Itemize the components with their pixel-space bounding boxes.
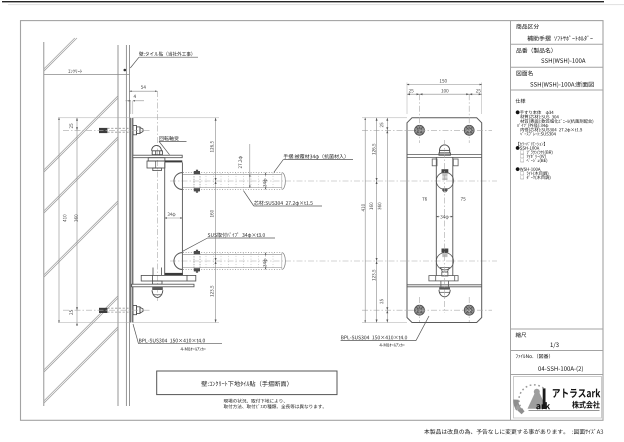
top dome front: [439, 145, 450, 155]
text: ﾊﾟｲﾌﾟ(外径):34φ: [517, 123, 548, 128]
top bearing front: [442, 169, 449, 173]
text: 4-M8ｵｰﾙｱﾝｶｰ: [379, 343, 404, 347]
text: 壁:ｺﾝｸﾘｰﾄ下地ﾀｲﾙ貼（手摺断面）: [201, 381, 288, 387]
text: ﾍﾞｰｽﾌﾟﾚｰﾄ:SUS304: [520, 132, 556, 136]
text: 仕様: [516, 99, 526, 104]
text: 160: [369, 203, 372, 210]
BPL plate side: [130, 118, 132, 323]
text: 25: [476, 89, 481, 92]
title block: [511, 21, 604, 421]
text: 34φ: [440, 215, 448, 219]
dim 34 vertical pipe line: [165, 217, 183, 219]
text: 25: [380, 299, 383, 304]
wall boundary: [43, 42, 45, 406]
label leaders: [159, 140, 187, 142]
text: SUS取付ﾊﾟｲﾌﾟ 34φ×t3.0: [208, 233, 265, 238]
left view right dim col: [133, 117, 219, 119]
anchor hole: [415, 305, 425, 315]
text: 126.5: [210, 141, 213, 152]
text: 34φ: [168, 213, 176, 217]
dim 34 top pipe lines: [265, 173, 267, 177]
text: 商品区分: [516, 24, 539, 29]
right view left dim lines: [362, 117, 407, 119]
text: ﾌｧｲﾙNo.（図番）: [516, 354, 550, 359]
text: 160: [210, 210, 213, 217]
bottom bracket: [165, 273, 183, 275]
text: 手摺:被覆材34φ（抗菌材入）: [284, 154, 346, 159]
dim 54 line: [130, 90, 158, 92]
text: 126.5: [372, 144, 375, 155]
text: ark: [536, 402, 550, 409]
caption box: [157, 371, 337, 395]
text: 取付方法、取付ﾋﾞｽの種類、全長等は異なります。: [224, 404, 324, 408]
text: 410: [361, 204, 364, 211]
text: BPL-SUS304 150×410×t4.0: [139, 339, 205, 343]
text: □ ﾌﾞﾗｳﾝ(ﾂﾔ)(BR): [520, 150, 552, 155]
text: 150: [440, 79, 447, 82]
text: 75: [461, 197, 466, 200]
text: 補助手摺 ｿﾌﾄｻﾎﾟｰﾄﾎﾙﾀﾞｰ: [527, 35, 593, 41]
text: 内径(芯材):SUS304 27.2φ×t1.5: [520, 128, 582, 132]
vertical mounting pipe: [164, 162, 166, 275]
tile marker dot: [124, 69, 127, 72]
text: 25: [409, 89, 414, 92]
text: アトラスark: [553, 389, 601, 398]
text: □ ｱｲﾎﾞﾘｰ(IV): [520, 154, 545, 159]
pipe front: [435, 157, 437, 276]
text: 本製品は改良の為、予告なしに変更する事があります。 :図面ｻｲｽﾞA3: [424, 429, 603, 434]
bottom pipe: [174, 253, 182, 270]
concrete face: [117, 45, 119, 406]
text: 34φ: [263, 259, 267, 267]
text: 410: [63, 215, 66, 222]
wall label leader: [139, 56, 198, 58]
top pipe: [174, 173, 182, 190]
text: SSH(WSH)-100A:断面図: [530, 82, 593, 88]
text: BPL-SUS304 150×410×t4.0: [341, 336, 407, 340]
text: 図面名: [517, 70, 533, 75]
dim 34 bottom pipe lines: [265, 253, 267, 257]
text: 76: [422, 197, 427, 200]
top clamp: [194, 170, 200, 193]
anchor hole: [415, 125, 425, 135]
text: □ ﾗｲﾄ(木目調): [520, 171, 548, 175]
text: 04-SSH-100A-(2): [538, 366, 583, 372]
right view top dim lines: [406, 83, 408, 115]
text: 4-M8ｵｰﾙｱﾝｶｰ: [181, 347, 206, 351]
flat bars front: [407, 154, 482, 156]
text: □ ﾀﾞｰｸ(木目調): [520, 175, 550, 180]
text: 123.5: [210, 286, 213, 297]
centerlines right view: [419, 94, 421, 143]
anchor bottom: [99, 306, 143, 315]
text: 品番（製品名）: [516, 48, 552, 54]
text: SSH(WSH)-100A: [541, 58, 585, 64]
text: 株式会社: [572, 401, 600, 409]
text: ●SSH-100A: [516, 146, 540, 150]
bottom clamp: [194, 250, 200, 273]
text: 材質(表面):軟質塩化ﾋﾞﾆｰﾙ(抗菌剤配合): [520, 119, 593, 124]
text: 360: [74, 215, 77, 222]
bottom flange front: [429, 276, 458, 281]
concrete hatch: [44, 38, 118, 403]
text: 360: [378, 203, 381, 210]
text: 回転軸受: [159, 136, 178, 141]
page top edge: [2, 1, 604, 2]
left dims ext: [58, 117, 131, 119]
text: 4: [134, 95, 136, 98]
text: ｺﾝｸﾘｰﾄ: [68, 69, 82, 73]
text: 材質(芯材):SUS 304: [520, 115, 559, 119]
top bearing dome: [152, 145, 163, 154]
concrete label line: [44, 74, 130, 76]
anchor hole: [464, 305, 474, 315]
dim 4 lines: [130, 101, 132, 114]
text: ●WSH-100A: [516, 167, 541, 171]
text: 縮尺: [516, 332, 527, 337]
dim 27.2 lines: [249, 144, 251, 188]
right view plate: [407, 118, 482, 323]
bottom bearing front: [442, 249, 449, 253]
tile lines: [125, 45, 127, 406]
text: 34φ: [263, 179, 267, 187]
text: 【ｶﾗｰﾊﾞﾘｴｰｼｮﾝ】: [518, 142, 545, 146]
top bracket body: [148, 158, 165, 161]
logo box: [514, 377, 602, 419]
text: 現場の状況、取付下地により、: [224, 399, 285, 403]
text: 100: [441, 89, 448, 92]
text: 芯材:SUS304 27.2φ×t1.5: [254, 201, 313, 206]
BPL right label leader: [341, 340, 416, 342]
text: 27.2φ: [238, 156, 242, 168]
text: 25: [380, 123, 383, 128]
text: 1/3: [551, 342, 559, 348]
text: 123.5: [372, 270, 375, 281]
text: 25: [69, 310, 72, 315]
anchor top: [99, 126, 143, 135]
centerlines: [156, 91, 158, 301]
dim 34 front lines: [436, 216, 439, 218]
top flat bar: [133, 155, 182, 158]
text: 壁:タイル貼（当社外工事）: [139, 52, 192, 57]
text: 25: [69, 124, 72, 129]
anchor hole: [464, 125, 474, 135]
logo gear mark: [513, 385, 547, 414]
text: □ ﾍﾞｰｼﾞｭ(BE): [520, 158, 547, 163]
text: ●手すり本体 φ34: [516, 110, 554, 114]
text: 54: [141, 85, 146, 88]
